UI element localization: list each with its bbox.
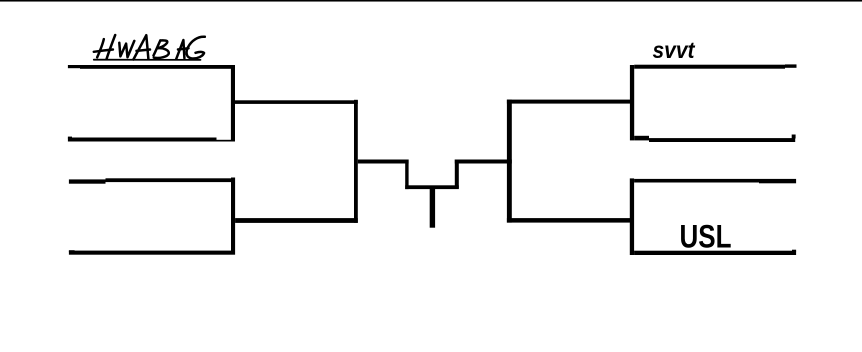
svg-text:USL: USL: [680, 218, 732, 254]
letter B: [154, 41, 161, 56]
final center line: [405, 185, 459, 189]
game3 vertical joiner: [630, 65, 634, 140]
game4 winner line: [507, 218, 631, 223]
game4 bottom slot line: [634, 251, 796, 255]
letter A: [133, 35, 148, 59]
game4 vertical joiner: [630, 178, 634, 255]
game3 winner line: [507, 100, 631, 104]
game3 bottom slot line: [634, 136, 649, 141]
final step-down vertical (left): [405, 160, 408, 190]
game4 top slot line: [634, 179, 759, 183]
top border bar: [0, 0, 862, 1]
game2 vertical joiner: [231, 178, 235, 255]
letter W: [119, 41, 134, 57]
letter A2: [176, 40, 184, 59]
game3 top slot line: [634, 65, 785, 69]
game2 top slot line: [69, 179, 106, 183]
final step-up vertical (right): [455, 160, 459, 189]
letter G: [187, 37, 205, 59]
game1 winner line: [235, 100, 358, 104]
game1 top slot line: [68, 65, 80, 68]
champion stub line: [430, 189, 435, 228]
left semifinal winner line: [358, 160, 409, 164]
game2 bottom slot line: [69, 250, 75, 252]
left semifinal vertical joiner: [354, 100, 358, 223]
right semifinal vertical joiner: [507, 100, 512, 223]
game1 vertical joiner: [231, 65, 235, 141]
game1 bottom slot line: [68, 137, 72, 139]
right semifinal winner line: [455, 160, 512, 164]
label HWABAG (handwritten): [94, 35, 205, 60]
letter H: [97, 39, 104, 57]
underline: [94, 59, 201, 61]
svg-text:svvt: svvt: [653, 37, 696, 63]
game2 winner line: [235, 218, 358, 223]
